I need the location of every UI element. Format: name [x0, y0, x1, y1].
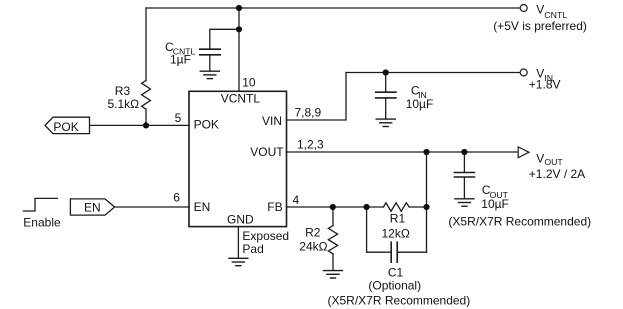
- svg-text:C1: C1: [388, 266, 404, 280]
- junction node CCNTL: [236, 26, 242, 32]
- svg-text:10µF: 10µF: [406, 97, 434, 111]
- capacitor COUT: [454, 173, 474, 178]
- wire CIN top lead: [385, 73, 387, 92]
- svg-text:V: V: [536, 3, 544, 17]
- svg-text:(X5R/X7R Recommended): (X5R/X7R Recommended): [448, 215, 591, 229]
- wire VOUT rail: [287, 151, 519, 153]
- terminal VOUT arrow: [518, 147, 529, 158]
- wire R2 bottom lead: [332, 254, 334, 270]
- ground CCNTL: [200, 71, 219, 78]
- junction node VOUT-FB: [423, 149, 429, 155]
- wire CCNTL bottom lead: [209, 55, 211, 70]
- EN flag: [70, 199, 114, 215]
- svg-text:7,8,9: 7,8,9: [295, 105, 322, 119]
- svg-text:(+5V is preferred): (+5V is preferred): [493, 19, 587, 33]
- wire R1 left lead: [367, 206, 384, 208]
- wire C1 left lead: [367, 251, 391, 253]
- svg-text:+1.2V / 2A: +1.2V / 2A: [529, 167, 585, 181]
- junction node COUT: [461, 149, 467, 155]
- svg-text:+1.8V: +1.8V: [529, 78, 561, 92]
- junction node R2: [330, 204, 336, 210]
- junction node pin10 top: [236, 5, 242, 11]
- svg-text:EN: EN: [84, 200, 101, 214]
- wire R2 top lead: [332, 207, 334, 226]
- wire R3 bottom lead: [145, 109, 147, 125]
- ground R2: [324, 271, 343, 278]
- wire GND exposed pad: [237, 227, 239, 258]
- POK flag: [45, 117, 90, 133]
- wire C1 right lead: [398, 251, 427, 253]
- svg-text:10µF: 10µF: [481, 197, 509, 211]
- svg-text:5: 5: [175, 111, 182, 125]
- svg-text:VIN: VIN: [262, 114, 282, 128]
- IC U1 body: [189, 91, 287, 226]
- svg-text:6: 6: [173, 191, 180, 205]
- wire COUT bottom lead: [463, 178, 465, 199]
- capacitor C1: [391, 242, 397, 262]
- svg-text:R2: R2: [305, 225, 321, 239]
- resistor R1: [384, 203, 410, 211]
- svg-text:FB: FB: [267, 200, 282, 214]
- capacitor CCNTL: [200, 49, 220, 55]
- wire VCNTL top rail: [146, 7, 520, 9]
- wire EN pin6: [115, 206, 189, 208]
- svg-text:Enable: Enable: [23, 215, 61, 229]
- svg-text:4: 4: [293, 193, 300, 207]
- junction node CIN: [383, 69, 389, 75]
- resistor R2: [328, 226, 337, 254]
- resistor R3: [142, 80, 151, 109]
- wire CCNTL branch: [210, 29, 239, 49]
- svg-text:GND: GND: [227, 213, 254, 227]
- junction node R1 left: [364, 204, 370, 210]
- ground COUT: [455, 199, 474, 206]
- enable step waveform: [23, 198, 57, 211]
- svg-text:EN: EN: [194, 200, 211, 214]
- wire C1 left vertical: [366, 207, 368, 252]
- svg-text:12kΩ: 12kΩ: [382, 226, 410, 240]
- svg-text:R1: R1: [390, 212, 406, 226]
- wire R1 right lead: [409, 206, 426, 208]
- wire VIN pin789: [287, 73, 347, 121]
- wire pin10 vertical: [238, 8, 240, 91]
- terminal VCNTL: [520, 5, 527, 12]
- svg-text:24kΩ: 24kΩ: [299, 240, 327, 254]
- ground CIN: [376, 119, 395, 126]
- wire CIN bottom lead: [385, 99, 387, 119]
- junction node R1 right: [423, 204, 429, 210]
- svg-text:Pad: Pad: [242, 242, 263, 256]
- svg-text:10: 10: [242, 75, 256, 89]
- svg-text:V: V: [536, 151, 544, 165]
- svg-text:(X5R/X7R Recommended): (X5R/X7R Recommended): [328, 294, 471, 308]
- svg-text:VCNTL: VCNTL: [221, 91, 261, 105]
- wire VOUT to FB vertical: [426, 152, 428, 207]
- svg-text:POK: POK: [194, 118, 219, 132]
- terminal VIN: [520, 69, 527, 76]
- svg-text:5.1kΩ: 5.1kΩ: [108, 97, 140, 111]
- svg-text:Exposed: Exposed: [242, 229, 289, 243]
- svg-text:OUT: OUT: [544, 157, 563, 167]
- wire FB pin4: [287, 206, 367, 208]
- wire C1 right vertical: [426, 207, 428, 252]
- ground exposed pad: [229, 258, 248, 265]
- svg-text:1,2,3: 1,2,3: [297, 138, 324, 152]
- capacitor CIN: [376, 92, 396, 98]
- junction node R3 POK: [143, 122, 149, 128]
- wire VIN rail: [346, 72, 520, 74]
- svg-text:1µF: 1µF: [170, 53, 191, 67]
- wire POK pin5: [90, 124, 190, 126]
- svg-text:POK: POK: [53, 120, 78, 134]
- wire R3 top vertical: [145, 8, 147, 80]
- svg-text:VOUT: VOUT: [250, 145, 284, 159]
- wire COUT top lead: [463, 152, 465, 172]
- svg-text:(Optional): (Optional): [368, 279, 421, 293]
